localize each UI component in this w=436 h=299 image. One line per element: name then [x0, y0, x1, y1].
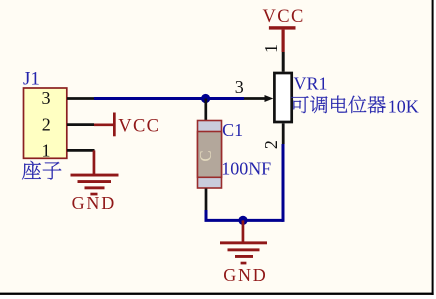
VR1 pin number 3 — [235, 77, 244, 97]
svg-text:VCC: VCC — [263, 7, 305, 27]
svg-text:C1: C1 — [222, 120, 243, 140]
svg-text:3: 3 — [235, 77, 244, 97]
label J1 — [23, 68, 40, 89]
svg-text:2: 2 — [261, 140, 281, 149]
J1 pin 2 — [42, 114, 94, 134]
power VCC at VR1 pin 1 — [263, 7, 305, 52]
J1 pin 3 — [42, 88, 95, 108]
svg-text:1: 1 — [42, 141, 51, 161]
label C1 — [222, 120, 243, 140]
VR1 pin number 2 — [261, 140, 281, 149]
connector J1 — [24, 88, 67, 158]
svg-text:100NF: 100NF — [221, 158, 271, 178]
svg-text:C: C — [196, 150, 215, 161]
svg-text:VCC: VCC — [118, 116, 160, 136]
wire C1 bottom to GND rail — [206, 210, 283, 220]
svg-text:3: 3 — [42, 88, 51, 108]
svg-text:GND: GND — [72, 193, 116, 213]
J1 pin 1 — [42, 141, 95, 161]
svg-text:10K: 10K — [388, 96, 419, 116]
label 可调电位器10K — [291, 96, 419, 117]
svg-text:1: 1 — [261, 44, 281, 53]
junction node at C1 top — [201, 94, 210, 103]
svg-text:GND: GND — [223, 265, 267, 285]
label VR1 — [294, 74, 328, 94]
VR1 pin number 1 — [261, 44, 281, 53]
power VCC at J1 pin 2 — [94, 113, 160, 137]
capacitor C1 — [196, 99, 222, 211]
wire up to VR1 pin 2 — [282, 144, 285, 222]
wire J1.3 to VR1 wiper — [94, 97, 244, 100]
label 座子 — [22, 161, 61, 180]
svg-text:2: 2 — [42, 114, 51, 134]
junction node at bottom GND — [238, 216, 247, 225]
ground GND bottom — [220, 220, 268, 284]
svg-text:VR1: VR1 — [294, 74, 328, 94]
ground GND at J1 pin 1 — [71, 150, 119, 213]
label 100NF — [221, 158, 271, 178]
potentiometer VR1 — [244, 52, 292, 144]
svg-text:J1: J1 — [23, 68, 40, 89]
